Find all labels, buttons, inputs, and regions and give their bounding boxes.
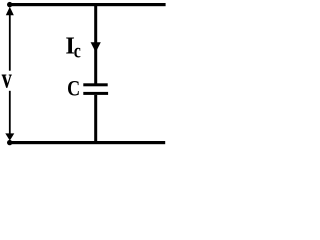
label v xyxy=(2,63,13,94)
wire middle branch lower (capacitor to bottom rail) xyxy=(94,95,97,144)
wire bottom rail xyxy=(8,141,165,144)
wire top rail xyxy=(8,3,166,6)
label C xyxy=(67,77,80,101)
wire middle branch upper (to capacitor) xyxy=(94,3,97,84)
current arrow Ic (points down) xyxy=(91,42,101,52)
svg-text:c: c xyxy=(74,39,81,63)
svg-text:C: C xyxy=(67,77,80,101)
capacitor C bottom plate xyxy=(83,92,108,95)
voltage arrow upper segment (points up to top node) xyxy=(6,7,14,71)
voltage arrow lower segment (points down to bottom node) xyxy=(5,91,14,141)
node top-left junction xyxy=(7,2,12,7)
capacitor C top plate xyxy=(83,83,107,86)
label Ic xyxy=(65,33,74,60)
node bottom-left junction xyxy=(7,140,12,145)
svg-text:v: v xyxy=(2,63,13,94)
